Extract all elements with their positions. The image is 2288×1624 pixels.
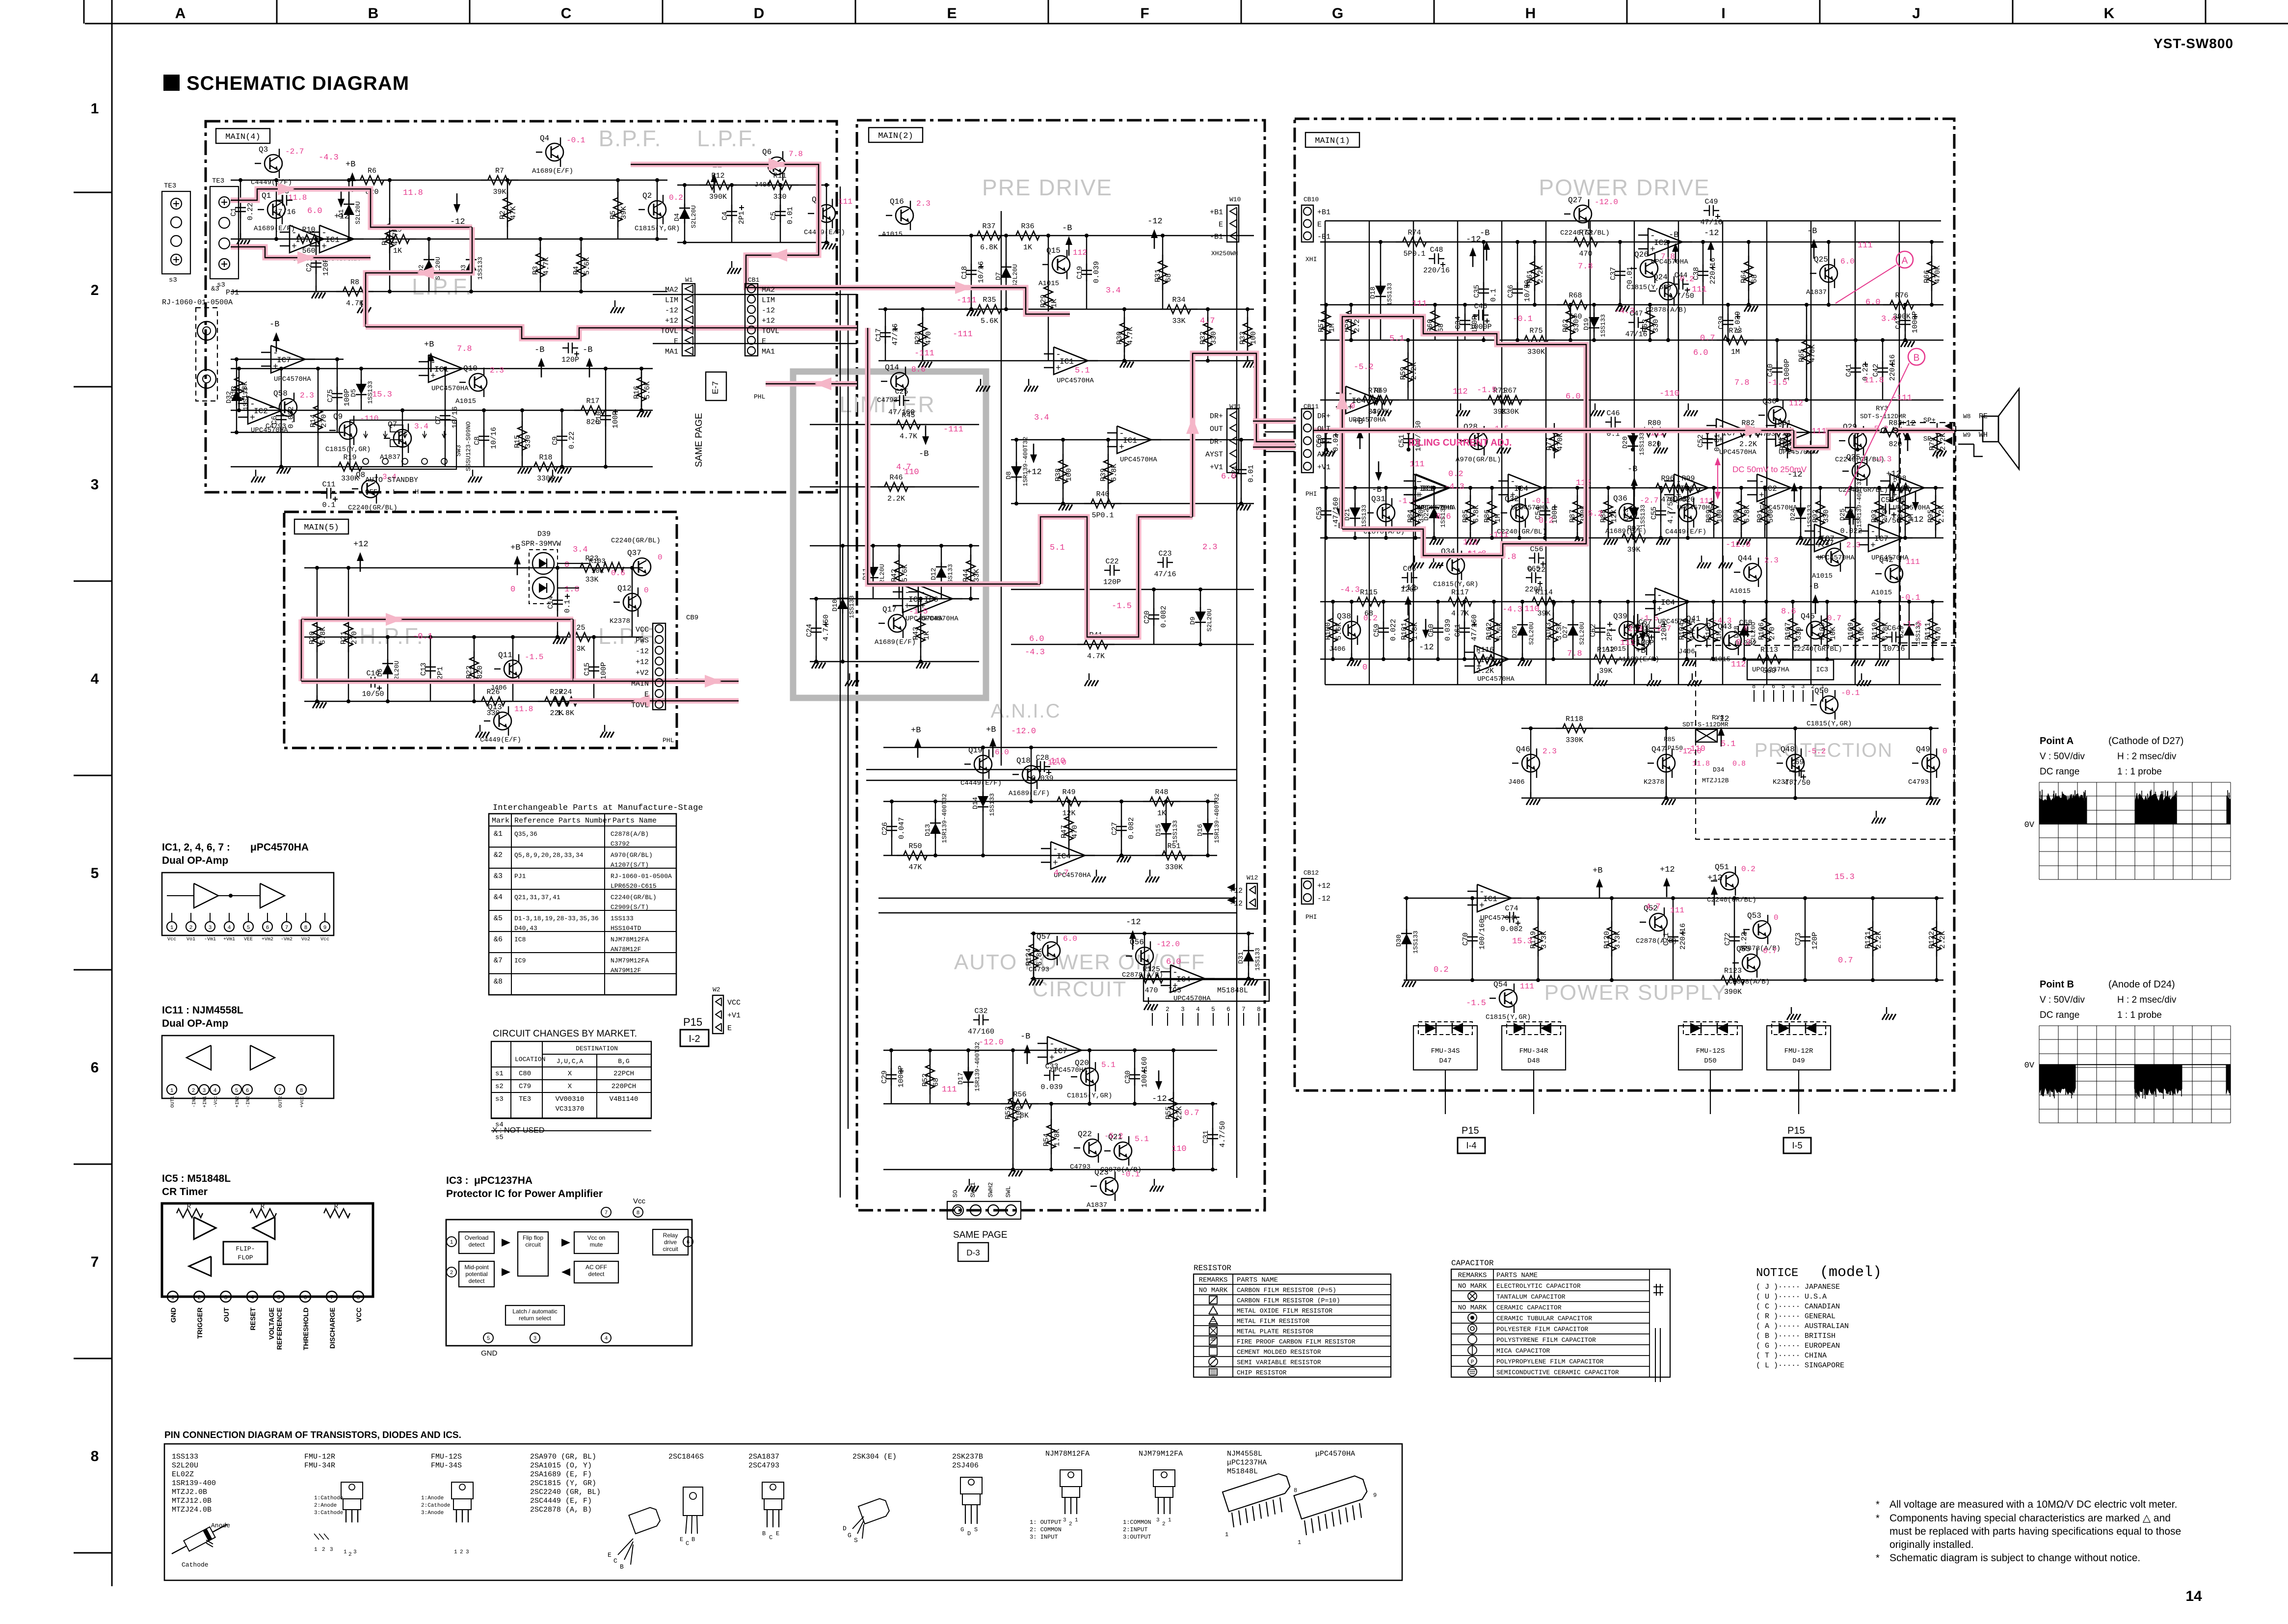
capacitor C6 xyxy=(281,409,282,416)
svg-text:IC4: IC4 xyxy=(1661,598,1675,607)
wire xyxy=(810,661,979,662)
svg-text:NJM78M12FA: NJM78M12FA xyxy=(611,936,649,943)
svg-text:NJM79M12FA: NJM79M12FA xyxy=(611,957,649,964)
wire xyxy=(922,309,923,361)
transistor Q46 xyxy=(1522,754,1540,772)
svg-text:6: 6 xyxy=(303,1294,307,1301)
transistor Q50 xyxy=(1820,696,1838,714)
svg-text:1SS133: 1SS133 xyxy=(988,793,996,816)
resistor R45 xyxy=(890,424,897,425)
svg-text:6: 6 xyxy=(687,1240,690,1246)
svg-text:1K: 1K xyxy=(1050,299,1059,308)
svg-text:C49: C49 xyxy=(1704,198,1718,206)
capacitor C52 xyxy=(1707,432,1708,439)
svg-text:R: R xyxy=(261,1203,265,1211)
svg-text:11.8: 11.8 xyxy=(1692,760,1710,768)
horizontal bus MAIN2 bottom xyxy=(878,898,1237,899)
svg-text:110: 110 xyxy=(1524,605,1540,614)
wire xyxy=(1932,602,1933,659)
svg-text:3: 3 xyxy=(466,1549,469,1555)
capacitor C53 xyxy=(1326,504,1327,511)
wire xyxy=(1713,602,1714,659)
svg-text:Q38: Q38 xyxy=(1337,612,1351,621)
svg-text:B: B xyxy=(1914,353,1920,363)
svg-text:112: 112 xyxy=(1453,387,1468,397)
svg-text:7: 7 xyxy=(285,925,289,931)
bridge rectifier FMU-12R xyxy=(1767,1026,1831,1070)
svg-text:*: * xyxy=(1876,1553,1880,1564)
wire xyxy=(1594,305,1595,340)
diode D19 xyxy=(1594,313,1595,318)
wire xyxy=(1611,898,1612,980)
svg-text:5: 5 xyxy=(487,1336,490,1342)
svg-text:R55: R55 xyxy=(1165,1106,1173,1119)
wire xyxy=(883,747,1217,748)
power rail -12 xyxy=(1154,235,1155,249)
connector CB1 xyxy=(745,284,758,356)
svg-text:FLIP-: FLIP- xyxy=(236,1245,255,1252)
svg-text:1M: 1M xyxy=(1715,631,1724,640)
power rail +12 xyxy=(1714,892,1715,905)
diode D26 xyxy=(1522,620,1523,625)
svg-text:1: 1 xyxy=(1821,683,1824,690)
wire xyxy=(1666,728,1667,798)
svg-text:D47: D47 xyxy=(1439,1057,1451,1065)
svg-text:3: 3 xyxy=(353,1549,357,1555)
svg-text:330: 330 xyxy=(524,435,532,448)
svg-text:5: 5 xyxy=(277,1294,280,1301)
capacitor C63 xyxy=(1654,621,1655,628)
svg-text:D19: D19 xyxy=(1583,318,1591,330)
wire xyxy=(1577,488,1578,538)
op-amp IC4 xyxy=(1655,588,1689,615)
svg-text:2: 2 xyxy=(91,282,99,298)
svg-text:-1.5: -1.5 xyxy=(1466,999,1486,1008)
diode D1 xyxy=(348,200,349,205)
column tick 7 xyxy=(1434,0,1435,24)
svg-text:1SR139-400T32: 1SR139-400T32 xyxy=(1213,794,1221,843)
ground xyxy=(1460,403,1461,410)
svg-text:FMU-34R: FMU-34R xyxy=(304,1462,335,1470)
svg-text:FMU-12R: FMU-12R xyxy=(304,1453,335,1461)
svg-text:7: 7 xyxy=(91,1254,99,1270)
svg-text:IC2: IC2 xyxy=(1896,484,1910,493)
point B callout xyxy=(1908,348,1925,365)
svg-text:100/160: 100/160 xyxy=(1141,1057,1149,1088)
ground xyxy=(1326,444,1327,451)
svg-text:C2240(GR/BL): C2240(GR/BL) xyxy=(348,504,398,512)
svg-text:C69: C69 xyxy=(1790,758,1804,767)
capacitor C43 xyxy=(1905,314,1906,320)
svg-text:R49: R49 xyxy=(1062,788,1075,797)
svg-text:POLYPROPYLENE FILM CAPACITOR: POLYPROPYLENE FILM CAPACITOR xyxy=(1496,1358,1604,1365)
svg-text:820: 820 xyxy=(1648,440,1661,449)
svg-text:470: 470 xyxy=(1579,250,1592,258)
resistor R105 xyxy=(1713,612,1714,618)
wire xyxy=(810,486,979,487)
capacitor C72 xyxy=(1734,930,1735,937)
wire xyxy=(1385,488,1386,538)
capacitor C61 xyxy=(1464,621,1465,628)
resistor R65 xyxy=(1806,335,1807,341)
svg-text:270: 270 xyxy=(320,414,328,427)
capacitor C37 xyxy=(1620,265,1621,271)
wire xyxy=(891,1050,892,1104)
svg-text:IC2: IC2 xyxy=(1763,484,1777,493)
resistor R93 xyxy=(1879,495,1880,501)
diode D5 xyxy=(361,379,362,384)
wire xyxy=(1522,602,1523,659)
svg-text:3: 3 xyxy=(91,477,99,493)
resistor R46 xyxy=(878,486,884,487)
op-amp IC4 xyxy=(1346,386,1380,414)
svg-text:C26: C26 xyxy=(881,822,889,835)
svg-text:VCC: VCC xyxy=(727,999,741,1007)
diode D20 xyxy=(1632,431,1633,436)
capacitor C74 xyxy=(1504,917,1510,918)
svg-text:+IN2: +IN2 xyxy=(235,1096,240,1108)
svg-text:CERAMIC CAPACITOR: CERAMIC CAPACITOR xyxy=(1496,1304,1562,1311)
svg-text:1.8K: 1.8K xyxy=(1411,622,1419,640)
resistor R18 xyxy=(527,466,534,467)
svg-text:REMARKS: REMARKS xyxy=(1199,1277,1228,1284)
svg-text:SP-: SP- xyxy=(1923,435,1936,443)
power rail +12 xyxy=(1666,883,1668,897)
signal path highlight MAIN5 top xyxy=(301,617,573,622)
svg-text:111: 111 xyxy=(1811,427,1827,436)
wire xyxy=(920,599,921,662)
svg-text:UPC1237HA: UPC1237HA xyxy=(1752,666,1789,674)
power rail -12 xyxy=(1794,488,1795,502)
svg-text:Q51: Q51 xyxy=(1715,863,1729,872)
svg-text:L.P.F.: L.P.F. xyxy=(697,126,758,151)
svg-text:4.7/50: 4.7/50 xyxy=(1219,1121,1227,1147)
svg-text:Q25: Q25 xyxy=(1814,255,1828,264)
svg-text:-: - xyxy=(1650,231,1655,241)
svg-text:4.7K: 4.7K xyxy=(542,257,551,275)
svg-text:-B: -B xyxy=(1372,485,1382,495)
ground xyxy=(479,725,480,732)
svg-text:IC8: IC8 xyxy=(514,936,526,943)
svg-text:0.022: 0.022 xyxy=(1840,527,1862,535)
svg-text:DR+: DR+ xyxy=(1210,412,1223,421)
diode D17 xyxy=(968,1067,969,1072)
transistor Q29 xyxy=(1849,432,1866,450)
svg-text:E: E xyxy=(1219,221,1223,229)
op-amp IC1 xyxy=(428,355,463,382)
resistor R116 xyxy=(1466,659,1473,660)
svg-text:112: 112 xyxy=(1463,538,1478,547)
speaker wires xyxy=(1954,430,1983,431)
svg-text:J: J xyxy=(1912,5,1920,22)
svg-text:&8: &8 xyxy=(494,978,503,986)
signal path highlight main2 entry xyxy=(758,288,1070,314)
svg-text:1SS133: 1SS133 xyxy=(1386,283,1393,306)
wire xyxy=(1326,432,1327,450)
capacitor C68 xyxy=(1738,631,1744,632)
svg-text:-0.1: -0.1 xyxy=(1900,593,1920,603)
transistor Q35 xyxy=(1852,462,1870,480)
signal path highlight MAIN5 left drop xyxy=(299,619,304,681)
signal path highlight MAIN5 TOVL return xyxy=(569,698,739,704)
svg-text:330: 330 xyxy=(1572,319,1581,332)
svg-text:1: 1 xyxy=(450,1240,453,1246)
svg-text:s1: s1 xyxy=(495,1070,504,1078)
svg-text:5.1: 5.1 xyxy=(1135,1135,1149,1144)
svg-text:R39: R39 xyxy=(1099,468,1108,481)
power rail +12 xyxy=(341,188,342,202)
wire xyxy=(1031,978,1254,979)
svg-text:7.8: 7.8 xyxy=(789,150,803,159)
svg-text:Mark: Mark xyxy=(492,817,509,825)
svg-text:1.8: 1.8 xyxy=(564,585,580,594)
svg-text:Q44: Q44 xyxy=(1738,554,1752,563)
svg-text:33K: 33K xyxy=(585,576,598,584)
svg-text:+B: +B xyxy=(986,725,996,735)
svg-text:TOVL: TOVL xyxy=(631,701,649,710)
svg-text:-: - xyxy=(1049,1039,1055,1049)
svg-text:2SC1815 (Y, GR): 2SC1815 (Y, GR) xyxy=(530,1479,596,1488)
svg-text:+12: +12 xyxy=(636,658,649,666)
svg-text:2SC4793: 2SC4793 xyxy=(748,1462,779,1470)
svg-text:47K: 47K xyxy=(908,863,922,872)
transistor Q1 xyxy=(267,201,285,218)
protector IC3 block diagram xyxy=(446,1220,692,1346)
svg-text:-110: -110 xyxy=(360,414,378,423)
svg-text:D49: D49 xyxy=(1792,1057,1805,1065)
connector W10 xyxy=(1227,205,1239,242)
svg-text:detect: detect xyxy=(588,1271,605,1278)
capacitor C36 xyxy=(1517,282,1518,289)
svg-text:1K: 1K xyxy=(393,247,402,255)
svg-text:0.082: 0.082 xyxy=(1160,606,1168,628)
ground xyxy=(971,303,972,310)
svg-text:W10: W10 xyxy=(1229,196,1241,203)
svg-text:A1015: A1015 xyxy=(1038,280,1059,288)
svg-text:D26: D26 xyxy=(1511,626,1519,638)
resistor R70 xyxy=(1356,399,1363,400)
wire xyxy=(1200,589,1201,644)
svg-text:100P: 100P xyxy=(600,662,608,680)
ground xyxy=(1748,299,1749,306)
svg-text:Vcc: Vcc xyxy=(320,937,329,942)
svg-text:C25: C25 xyxy=(895,388,908,396)
svg-text:CB1: CB1 xyxy=(748,276,760,284)
svg-text:10/16: 10/16 xyxy=(451,406,459,428)
svg-text:IC5 : M51848L: IC5 : M51848L xyxy=(162,1173,231,1184)
capacitor C3 xyxy=(277,200,283,201)
svg-text:470K: 470K xyxy=(1556,433,1565,451)
svg-text:Mid-point: Mid-point xyxy=(464,1264,489,1271)
wire xyxy=(1931,242,1932,305)
wire xyxy=(641,369,642,410)
svg-text:GND: GND xyxy=(169,1307,177,1323)
svg-text:5: 5 xyxy=(1782,683,1785,690)
svg-text:Point A: Point A xyxy=(2040,736,2074,746)
svg-text:1SS133: 1SS133 xyxy=(1639,505,1647,528)
svg-text:R101: R101 xyxy=(1400,622,1409,640)
svg-text:-110: -110 xyxy=(1659,389,1679,399)
diode D11 xyxy=(873,562,874,567)
resistor R118 xyxy=(1556,728,1563,729)
svg-text:POWER SUPPLY: POWER SUPPLY xyxy=(1544,981,1728,1005)
svg-text:1: 1 xyxy=(1298,1539,1301,1546)
IC3 block in circuit xyxy=(1747,660,1834,680)
svg-text:R118: R118 xyxy=(1566,715,1583,723)
wire xyxy=(1326,488,1327,538)
resistor R113 xyxy=(1751,659,1757,660)
svg-text:G: G xyxy=(1332,5,1343,22)
ground xyxy=(1879,653,1880,660)
svg-text:Q17: Q17 xyxy=(882,605,897,614)
diode D31 xyxy=(1248,946,1249,951)
svg-text:111: 111 xyxy=(942,1085,957,1094)
resistor R123 xyxy=(1714,980,1721,981)
svg-text:2.3: 2.3 xyxy=(1846,541,1861,550)
svg-text:+12: +12 xyxy=(762,317,775,325)
svg-text:R81: R81 xyxy=(1778,419,1791,427)
capacitor C19 xyxy=(1086,264,1087,270)
svg-text:C8: C8 xyxy=(473,436,481,445)
svg-text:1: 1 xyxy=(91,101,99,117)
svg-text:4.7: 4.7 xyxy=(1646,903,1661,912)
capacitor C57 xyxy=(1843,519,1849,520)
svg-text:5: 5 xyxy=(235,1088,239,1094)
resistor R36 xyxy=(1009,235,1016,236)
svg-text:47/160: 47/160 xyxy=(1470,614,1479,641)
svg-text:10/16: 10/16 xyxy=(977,261,985,283)
column tick 4 xyxy=(855,0,856,24)
svg-text:15.3: 15.3 xyxy=(1835,873,1855,882)
capacitor C75 xyxy=(337,387,338,394)
svg-text:2SK304 (E): 2SK304 (E) xyxy=(852,1453,897,1461)
ground xyxy=(1121,850,1122,856)
svg-text:-12: -12 xyxy=(636,647,649,656)
svg-text:R107: R107 xyxy=(1784,622,1792,640)
wire xyxy=(1905,305,1906,340)
svg-text:8.6: 8.6 xyxy=(1781,607,1796,616)
signal path highlight main1 trunk xyxy=(1342,317,1586,529)
svg-text:CB12: CB12 xyxy=(1304,869,1319,877)
svg-text:C46: C46 xyxy=(1606,409,1620,418)
svg-text:1SR139-400: 1SR139-400 xyxy=(172,1479,216,1488)
svg-text:D15: D15 xyxy=(1155,824,1163,836)
wire xyxy=(1713,488,1714,538)
capacitor C24 xyxy=(816,621,817,628)
svg-text:(Anode of D24): (Anode of D24) xyxy=(2108,979,2175,990)
wire xyxy=(1827,602,1828,659)
svg-text:4: 4 xyxy=(228,925,231,931)
transistor Q56 xyxy=(1136,947,1153,965)
svg-text:OUT2: OUT2 xyxy=(278,1096,284,1108)
resistor R55 xyxy=(1173,1092,1174,1098)
svg-text:Q27: Q27 xyxy=(1568,196,1582,205)
svg-text:3.4: 3.4 xyxy=(1106,286,1121,295)
svg-text:R48: R48 xyxy=(1155,788,1168,797)
svg-text:1P150: 1P150 xyxy=(1664,745,1683,752)
svg-text:R111: R111 xyxy=(1924,622,1932,640)
resistor R99 xyxy=(1670,487,1676,488)
svg-text:2: 2 xyxy=(1166,1006,1170,1013)
capacitor C11 xyxy=(321,493,327,494)
svg-text:A1689(E/F): A1689(E/F) xyxy=(875,639,916,646)
svg-text:0.22: 0.22 xyxy=(568,431,576,449)
svg-text:5: 5 xyxy=(91,865,99,881)
power rail -B xyxy=(1675,249,1676,263)
svg-text:0.1: 0.1 xyxy=(322,501,335,509)
ground xyxy=(1651,673,1652,680)
resistor R3 xyxy=(540,247,541,253)
svg-text:-0.1: -0.1 xyxy=(1513,315,1533,324)
svg-text:M51848L: M51848L xyxy=(1227,1467,1258,1476)
svg-text:4.7/50: 4.7/50 xyxy=(1784,779,1810,787)
svg-text:0.047: 0.047 xyxy=(898,817,906,839)
svg-text:+: + xyxy=(1816,541,1822,551)
resistor R110 xyxy=(1879,612,1880,618)
capacitor C44 xyxy=(1673,284,1679,285)
wire xyxy=(474,637,475,701)
svg-text:-: - xyxy=(1172,968,1178,978)
svg-text:8: 8 xyxy=(91,1448,99,1464)
svg-text:+: + xyxy=(1053,858,1058,868)
svg-text:E: E xyxy=(776,1530,779,1537)
svg-text:( L )····· SINGAPORE: ( L )····· SINGAPORE xyxy=(1756,1361,1844,1370)
svg-text:D: D xyxy=(967,1530,971,1537)
power rail -12 xyxy=(1710,247,1712,261)
wire xyxy=(231,359,344,360)
svg-text:-1.5: -1.5 xyxy=(525,653,543,662)
svg-text:0: 0 xyxy=(510,585,515,594)
svg-text:mute: mute xyxy=(590,1241,603,1248)
resistor R26 xyxy=(475,701,481,702)
resistor R106 xyxy=(1766,612,1767,618)
svg-text:R56: R56 xyxy=(1013,1091,1026,1099)
svg-text:+B: +B xyxy=(1636,646,1646,656)
svg-text:+B: +B xyxy=(911,726,921,735)
svg-text:R42: R42 xyxy=(890,569,899,582)
ground xyxy=(816,656,817,663)
ground xyxy=(1124,355,1125,362)
svg-text:12K: 12K xyxy=(1062,809,1075,818)
wire xyxy=(816,599,817,662)
svg-text:&2: &2 xyxy=(494,851,503,859)
resistor R5 xyxy=(617,192,618,198)
svg-text:R73: R73 xyxy=(1729,327,1742,335)
svg-text:2SA1689 (E, F): 2SA1689 (E, F) xyxy=(530,1470,592,1479)
svg-text:3: 3 xyxy=(330,1547,333,1553)
speaker relay dashed box xyxy=(1900,423,1956,643)
svg-text:2SA1837: 2SA1837 xyxy=(748,1453,779,1461)
speaker xyxy=(1983,416,1998,442)
svg-text:R34: R34 xyxy=(1172,296,1185,304)
svg-text:D18: D18 xyxy=(1369,287,1377,299)
svg-text:*: * xyxy=(1876,1513,1880,1524)
transistor Q44 xyxy=(1744,563,1761,581)
wire xyxy=(883,1169,1217,1170)
svg-text:2: 2 xyxy=(189,925,193,931)
svg-text:-0.1: -0.1 xyxy=(1841,689,1860,697)
svg-text:+: + xyxy=(292,242,297,252)
svg-text:-4.3: -4.3 xyxy=(319,153,339,162)
wire xyxy=(512,637,513,701)
ground xyxy=(1063,498,1064,505)
resistor R29 xyxy=(1048,280,1049,286)
ground xyxy=(1791,1007,1792,1014)
svg-text:-110: -110 xyxy=(1685,745,1705,754)
wire xyxy=(471,239,472,292)
svg-text:-111: -111 xyxy=(1489,531,1509,540)
svg-text:8.6: 8.6 xyxy=(911,365,926,374)
